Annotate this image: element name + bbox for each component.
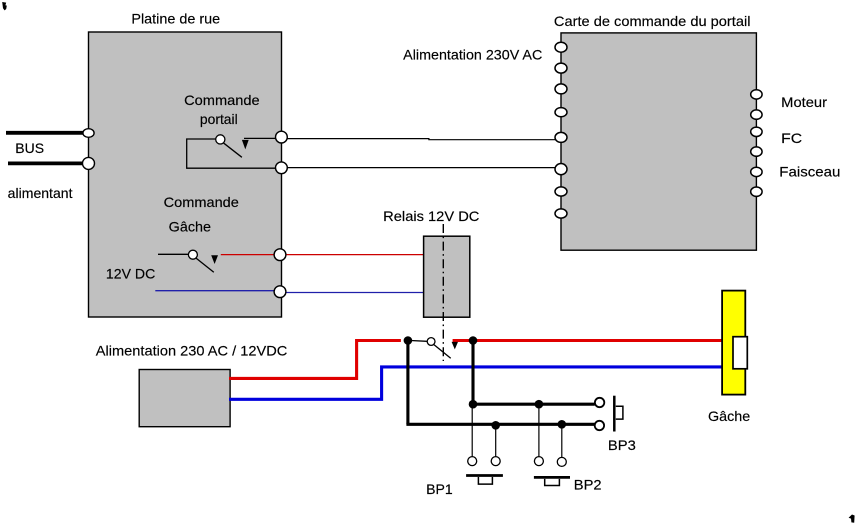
terminal carte L8 — [555, 209, 567, 218]
terminal carte R2 — [751, 110, 762, 119]
black wire bottom horizontal to BP3 lower — [406, 423, 594, 426]
switch gache arrowhead — [211, 255, 218, 264]
terminal gache plus — [274, 249, 286, 261]
terminal carte L6 — [555, 164, 567, 175]
gache strike body — [722, 291, 745, 395]
terminal gache minus — [274, 286, 286, 298]
svg-text:Alimentation 230 AC / 12VDC: Alimentation 230 AC / 12VDC — [96, 343, 287, 359]
wire BUS top — [6, 131, 88, 135]
terminal carte L4 — [555, 108, 567, 117]
push button BP3 bar — [613, 396, 616, 432]
relais coil box — [424, 236, 470, 317]
junction node red-black left — [404, 336, 413, 345]
contact BP1 right — [491, 457, 500, 466]
switch commande portail blade — [223, 143, 242, 158]
switch gache pivot — [188, 250, 197, 259]
switch commande portail arrowhead — [242, 140, 249, 150]
terminal BUS top — [83, 129, 94, 138]
wire drop BP1 right — [495, 427, 497, 457]
svg-text:Faisceau: Faisceau — [779, 164, 840, 180]
push button BP1 bar — [466, 474, 503, 477]
terminal BUS bottom — [83, 157, 95, 169]
switch commande portail pivot — [216, 135, 225, 144]
wire red relay contact to gache — [453, 339, 722, 342]
svg-text:BUS: BUS — [15, 140, 44, 156]
contact BP2 left — [534, 457, 543, 466]
wire drop BP2 left — [538, 406, 540, 457]
svg-text:BP2: BP2 — [574, 476, 602, 492]
terminal portail COM — [276, 162, 288, 174]
artifact mark bottom-right — [849, 515, 855, 523]
terminal carte R1 — [751, 90, 762, 99]
push button BP2 bar — [534, 476, 570, 479]
switch gache lead wire — [158, 253, 189, 255]
wire 12V red inside platine — [221, 254, 275, 256]
svg-text:Commande: Commande — [164, 194, 240, 210]
svg-text:Gâche: Gâche — [169, 219, 212, 235]
terminal carte R6 — [751, 187, 762, 196]
svg-text:Alimentation 230V AC: Alimentation 230V AC — [403, 47, 542, 63]
svg-text:12V DC: 12V DC — [106, 266, 155, 282]
box alimentation 230AC/12VDC — [139, 370, 230, 427]
push button BP3 plunger — [616, 406, 623, 419]
relay contact blade — [434, 345, 451, 359]
push button BP2 plunger — [545, 479, 560, 486]
contact BP2 right — [557, 457, 566, 466]
switch commande portail wire to terminal — [244, 137, 277, 139]
relais dash-dot axis — [442, 224, 444, 361]
gache keeper white box — [733, 337, 747, 369]
wire drop BP2 right — [561, 427, 563, 457]
wire 12V blue inside platine — [155, 290, 274, 292]
junction node A mid — [535, 400, 544, 409]
terminal BP3 lower — [595, 421, 604, 430]
terminal carte L5 — [555, 132, 567, 142]
contact BP1 left — [468, 457, 477, 466]
relay contact arrowhead — [452, 342, 458, 350]
black wire upper horizontal to BP3 upper — [472, 403, 595, 406]
terminal carte L7 — [555, 187, 567, 196]
svg-text:Platine de rue: Platine de rue — [131, 11, 220, 27]
junction node red-black right — [469, 336, 478, 345]
junction node A corner — [469, 400, 478, 409]
relay contact lead — [408, 339, 427, 342]
wire drop BP1 left — [471, 406, 473, 457]
svg-text:BP3: BP3 — [608, 437, 636, 453]
push button BP1 plunger — [478, 477, 492, 484]
switch commande portail bracket wire — [187, 139, 280, 168]
terminal portail NO — [276, 131, 288, 143]
svg-text:Carte de commande du portail: Carte de commande du portail — [554, 13, 751, 29]
artifact mark top-left — [2, 2, 7, 10]
svg-text:Commande: Commande — [184, 92, 260, 108]
black wire left vertical — [406, 342, 409, 424]
svg-text:Moteur: Moteur — [781, 94, 827, 110]
terminal carte L2 — [555, 63, 567, 73]
switch gache blade — [196, 258, 214, 272]
box platine de rue — [89, 32, 282, 317]
wire blue alimentation to gache — [229, 367, 722, 399]
wire BUS bottom — [8, 161, 88, 165]
terminal carte L3 — [555, 84, 567, 94]
box carte de commande — [561, 33, 756, 250]
svg-text:Gâche: Gâche — [708, 408, 750, 424]
wire red alimentation to relay contact — [229, 341, 401, 379]
svg-text:alimentant: alimentant — [8, 185, 73, 201]
svg-text:Relais 12V DC: Relais 12V DC — [383, 208, 479, 224]
terminal carte R4 — [751, 147, 762, 156]
svg-text:FC: FC — [781, 130, 802, 146]
terminal carte R5 — [751, 167, 762, 176]
terminal BP3 upper — [595, 398, 604, 407]
wire 12V blue platine to relais — [287, 292, 424, 294]
wire 12V red platine to relais — [287, 254, 424, 256]
wire portail to carte top — [287, 139, 555, 140]
junction node B mid2 — [558, 420, 567, 429]
relay contact pivot — [427, 338, 435, 346]
junction node B mid1 — [491, 421, 500, 430]
svg-text:portail: portail — [200, 111, 238, 127]
terminal carte L1 — [555, 42, 567, 52]
terminal carte R3 — [751, 127, 762, 136]
svg-text:BP1: BP1 — [426, 481, 453, 497]
wire portail to carte bottom — [287, 167, 555, 169]
black wire right vertical — [471, 342, 474, 404]
